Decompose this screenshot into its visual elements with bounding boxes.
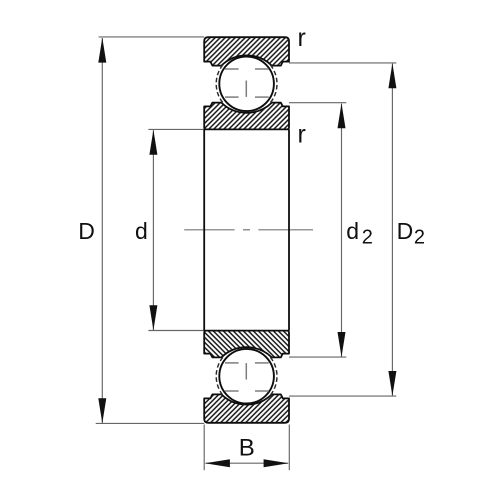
svg-text:d: d bbox=[346, 218, 359, 244]
svg-text:r: r bbox=[298, 120, 306, 148]
svg-text:2: 2 bbox=[414, 226, 425, 248]
svg-text:D: D bbox=[397, 218, 414, 244]
svg-text:d: d bbox=[135, 218, 148, 244]
svg-text:r: r bbox=[298, 24, 306, 52]
svg-text:2: 2 bbox=[362, 226, 373, 248]
svg-text:B: B bbox=[239, 435, 255, 462]
svg-text:D: D bbox=[78, 218, 95, 244]
